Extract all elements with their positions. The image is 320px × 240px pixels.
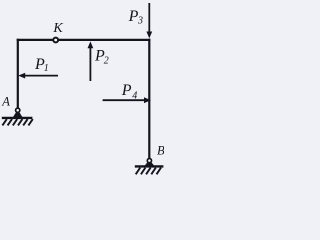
support A: pin bbox=[13, 108, 23, 117]
svg-text:1: 1 bbox=[44, 63, 49, 74]
force P3 bbox=[146, 3, 152, 38]
wire: left column bbox=[17, 39, 19, 108]
svg-text:4: 4 bbox=[132, 90, 137, 101]
label P2 bbox=[94, 47, 109, 66]
svg-text:2: 2 bbox=[104, 56, 109, 67]
hinge K bbox=[53, 38, 58, 43]
force P1 bbox=[18, 73, 58, 79]
svg-text:A: A bbox=[1, 95, 10, 109]
wire: top beam bbox=[17, 39, 151, 41]
svg-text:P: P bbox=[121, 82, 132, 99]
label P3 bbox=[128, 8, 143, 27]
wire: right column bbox=[148, 39, 150, 159]
svg-text:K: K bbox=[52, 21, 63, 36]
svg-text:P: P bbox=[128, 8, 139, 25]
support B: ground bbox=[135, 166, 164, 174]
label P1 bbox=[34, 56, 49, 74]
svg-text:3: 3 bbox=[137, 15, 143, 26]
force P4 bbox=[103, 97, 151, 103]
support A: ground bbox=[2, 118, 33, 126]
svg-text:B: B bbox=[157, 143, 164, 157]
support B: pin bbox=[145, 159, 155, 166]
label P4 bbox=[121, 82, 138, 101]
force P2 bbox=[88, 41, 94, 81]
